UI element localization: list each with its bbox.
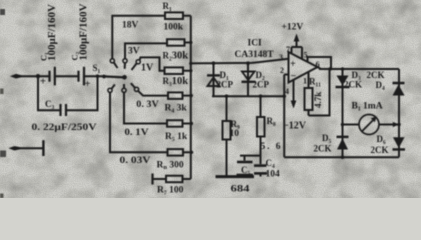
resistor R5 — [167, 120, 183, 127]
svg-text:D₆: D₆ — [377, 134, 386, 144]
wire meter right — [379, 122, 401, 127]
svg-text:+12V: +12V — [282, 23, 304, 33]
svg-text:D₃: D₃ — [352, 70, 361, 80]
svg-text:R₉: R₉ — [231, 119, 240, 129]
wire 0.1V tap — [124, 92, 167, 123]
+12V supply arrow — [292, 34, 303, 48]
S1 contact 0.03V — [108, 85, 115, 93]
resistor R1 — [165, 12, 183, 19]
wire feedback node (horizontal) — [212, 95, 284, 97]
svg-text:4.7k: 4.7k — [313, 92, 323, 108]
wire bridge right vertical — [398, 69, 400, 157]
wire meter left — [341, 123, 359, 127]
meter B1 — [359, 115, 379, 135]
svg-text:R₈: R₈ — [267, 116, 276, 126]
svg-text:Rn 300: Rn 300 — [157, 161, 184, 172]
input terminal bottom (arrow with bar) — [9, 140, 44, 156]
svg-text:C₄: C₄ — [266, 158, 275, 168]
IC1 label — [235, 39, 275, 61]
resistor R2 — [167, 39, 185, 46]
svg-text:R₂30k: R₂30k — [163, 51, 189, 62]
capacitor C3 — [61, 104, 67, 116]
D6 label — [371, 134, 389, 155]
svg-text:R₄ 3k: R₄ 3k — [165, 104, 188, 114]
wire C1-C2 — [55, 75, 79, 77]
D1 label — [217, 70, 234, 90]
op-amp +/- marks — [290, 59, 297, 82]
wire 18V tap — [112, 16, 165, 59]
wire R3 to bus — [183, 69, 193, 72]
svg-text:1: 1 — [303, 77, 307, 86]
svg-text:2CK: 2CK — [367, 70, 385, 80]
wire bus to op-amp input — [189, 59, 288, 65]
svg-text:B₁ 1mA: B₁ 1mA — [352, 102, 383, 112]
svg-text:5. 6: 5. 6 — [261, 142, 281, 152]
wire C3 branch right — [66, 74, 99, 110]
scan edge artifact top-left — [0, 9, 5, 15]
R11 label — [309, 77, 323, 109]
svg-text:0. 3V: 0. 3V — [136, 100, 159, 110]
svg-text:R₃10k: R₃10k — [163, 76, 189, 87]
diode D2 — [242, 61, 256, 96]
wire R2 to bus — [185, 41, 193, 44]
capacitor C5 — [237, 156, 254, 175]
R1 label — [163, 1, 184, 33]
svg-text:2CK: 2CK — [371, 145, 389, 155]
resistor R9 — [223, 94, 231, 175]
svg-text:18V: 18V — [122, 21, 139, 31]
D5 label — [314, 133, 332, 154]
svg-text:0. 1V: 0. 1V — [125, 128, 149, 138]
diode D4 — [393, 82, 405, 96]
svg-text:3: 3 — [279, 53, 283, 62]
svg-text:R₁₁: R₁₁ — [309, 77, 321, 87]
wire C2 to S1 common — [84, 75, 104, 77]
pin 7 stub — [286, 45, 292, 54]
svg-text:2: 2 — [280, 66, 284, 75]
svg-text:R₁: R₁ — [163, 1, 172, 11]
S1 contact 3V — [123, 59, 127, 69]
svg-text:+: + — [40, 77, 46, 88]
svg-text:R₇ 100: R₇ 100 — [157, 186, 184, 196]
wire C3 branch left — [36, 74, 61, 110]
svg-text:R₅ 1k: R₅ 1k — [165, 132, 188, 142]
resistor R4 — [168, 92, 183, 99]
S1 contact 0.1V — [122, 84, 126, 92]
svg-text:S₁: S₁ — [93, 63, 101, 73]
wire R7 to bus — [183, 178, 191, 180]
svg-text:100k: 100k — [164, 23, 184, 33]
diode D5 — [337, 136, 349, 150]
ground bar — [216, 175, 255, 178]
wire 0.3V tap — [138, 91, 168, 96]
input terminal top (arrow) — [10, 74, 50, 79]
svg-text:D₄: D₄ — [376, 80, 385, 90]
wire 3V tap — [125, 43, 167, 59]
svg-text:D₂: D₂ — [256, 70, 265, 80]
svg-text:684: 684 — [231, 185, 250, 195]
svg-text:+: + — [85, 79, 91, 90]
capacitor C2 — [79, 67, 91, 90]
C1 label (rotated) — [39, 3, 59, 61]
svg-text:+: + — [290, 59, 296, 70]
wire R6 to bus — [183, 151, 193, 154]
wire bridge left vertical — [341, 67, 345, 157]
wire 1V tap — [140, 57, 165, 70]
svg-text:0. 03V: 0. 03V — [120, 156, 151, 166]
svg-text:2CP: 2CP — [217, 80, 234, 90]
S1 contact 0.3V — [131, 83, 139, 91]
diode D6 — [393, 137, 406, 151]
resistor R7 — [166, 176, 183, 183]
capacitor C1 — [40, 67, 55, 88]
svg-text:CA3148T: CA3148T — [235, 50, 275, 60]
diode D1 — [207, 61, 220, 96]
R9 label — [230, 119, 240, 139]
wire bridge bottom return — [284, 155, 399, 159]
svg-text:6: 6 — [316, 59, 320, 69]
capacitor C4 — [254, 156, 267, 177]
S1 contact 1V — [132, 60, 141, 70]
svg-text:2CP: 2CP — [253, 80, 270, 90]
resistor R8 — [257, 94, 265, 155]
R7 input stub (bar) — [153, 174, 167, 185]
svg-text:−12V: −12V — [283, 121, 307, 132]
svg-text:100μF/160V: 100μF/160V — [47, 3, 58, 61]
wire R5 to bus — [183, 122, 194, 125]
svg-text:104: 104 — [266, 170, 281, 180]
C4 label — [266, 158, 281, 180]
wire 0.03V tap — [110, 92, 168, 152]
wire R1 to bus — [183, 15, 191, 17]
S1 contact 18V — [110, 59, 117, 68]
svg-text:4: 4 — [285, 87, 289, 96]
svg-text:ICI: ICI — [248, 39, 263, 49]
svg-text:C₅: C₅ — [241, 165, 250, 175]
resistor R11 — [305, 72, 313, 116]
svg-text:2CK: 2CK — [314, 144, 332, 154]
C2 label (rotated) — [70, 3, 90, 61]
pin 5 stub — [302, 47, 308, 60]
pin 6 output wire — [308, 57, 400, 69]
svg-text:3V: 3V — [128, 47, 140, 57]
R8 label — [261, 116, 281, 152]
svg-text:C₃: C₃ — [45, 99, 54, 109]
svg-text:100μF/160V: 100μF/160V — [79, 3, 90, 61]
svg-text:D₅: D₅ — [322, 133, 331, 143]
wire R4 to bus — [183, 94, 193, 97]
scan edge artifact mid-left — [0, 89, 4, 95]
pin 4 stub and -12V arrow — [285, 80, 296, 109]
wire inverting input drop — [282, 75, 288, 158]
resistor R3 — [165, 67, 184, 74]
wire R11 feedback to output — [309, 67, 332, 115]
diode D3 — [336, 76, 350, 89]
svg-text:7: 7 — [286, 45, 290, 54]
switch S1 wiper — [102, 75, 127, 80]
wire C5/C4 junction — [240, 155, 261, 157]
D2 label — [253, 70, 270, 90]
svg-text:1V: 1V — [141, 63, 154, 74]
wire bus (summing) — [190, 16, 192, 179]
op-amp U1 triangle — [289, 52, 318, 83]
resistor R6 — [168, 149, 184, 156]
svg-text:0. 22μF/250V: 0. 22μF/250V — [32, 123, 97, 133]
svg-text:2CK: 2CK — [344, 80, 362, 90]
svg-text:D₁: D₁ — [220, 70, 229, 80]
scan edge artifact corner — [0, 194, 4, 199]
svg-text:10: 10 — [230, 129, 240, 139]
scan edge artifact bottom-left — [0, 151, 6, 158]
